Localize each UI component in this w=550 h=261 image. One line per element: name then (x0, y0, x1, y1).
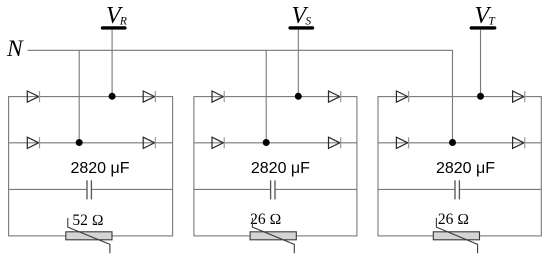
wire: N tap down to row 2 (78, 50, 80, 143)
wire: N bus from label to block-3 drop, with corner down to block-3 row 2 (28, 50, 453, 143)
svg-text:26 Ω: 26 Ω (250, 211, 281, 228)
terminal VR bar (103, 26, 125, 29)
wire: capacitor row of block 3 (left segment) (378, 188, 455, 190)
resistor R3 adjustment diagonal with hooked ends (436, 218, 477, 253)
node: VR junction dot on row 1 (109, 93, 116, 100)
wire: capacitor row of block 3 (right segment) (459, 188, 541, 190)
diode D4 (block 1, row 2 right) (143, 137, 155, 148)
wire: capacitor row of block 1 (right segment) (91, 188, 172, 190)
svg-text:2820 μF: 2820 μF (251, 160, 310, 177)
wire: capacitor row of block 2 (left segment) (194, 188, 271, 190)
diode D7 (block 2, row 2 left) (212, 137, 224, 148)
diode D3 (block 1, row 2 left) (27, 137, 39, 148)
terminal VT bar (471, 26, 494, 29)
wire: capacitor row of block 2 (right segment) (275, 188, 357, 190)
diode D9 (block 3, row 1 left) (396, 91, 408, 102)
wire: diode row 2 of block 2 (194, 142, 357, 144)
diode D6 (block 2, row 1 right) (329, 91, 341, 102)
resistor R1 body (varistor rectangle) (66, 232, 112, 240)
bridge box outline B2 (194, 97, 357, 236)
svg-text:26 Ω: 26 Ω (438, 211, 469, 228)
node: VS junction dot on row 1 (295, 93, 302, 100)
diode D1 (block 1, row 1 left) (27, 91, 39, 102)
svg-text:R: R (119, 16, 127, 28)
resistor R2 body (varistor rectangle) (250, 232, 296, 240)
resistor R2 adjustment diagonal with hooked ends (252, 218, 294, 253)
svg-text:52 Ω: 52 Ω (72, 212, 103, 229)
svg-text:N: N (6, 36, 24, 62)
svg-text:T: T (488, 16, 496, 28)
node: VT junction dot on row 1 (477, 93, 484, 100)
node: N junction dot on row 2 (263, 139, 270, 146)
diode D8 (block 2, row 2 right) (329, 137, 341, 148)
capacitor C3 plates (455, 180, 459, 199)
diode D2 (block 1, row 1 right) (143, 91, 155, 102)
wire: VR tap down to row 1 (111, 30, 113, 97)
node: N junction dot on row 2 (449, 139, 456, 146)
wire: VS tap down to row 1 (297, 30, 299, 97)
diode D5 (block 2, row 1 left) (212, 91, 224, 102)
wire: N tap down to row 2 (265, 50, 267, 143)
svg-text:2820 μF: 2820 μF (436, 160, 495, 177)
resistor R3 body (varistor rectangle) (433, 232, 479, 240)
capacitor C1 plates (87, 180, 91, 199)
diode D12 (block 3, row 2 right) (513, 137, 525, 148)
diode D11 (block 3, row 2 left) (396, 137, 408, 148)
svg-text:2820 μF: 2820 μF (70, 160, 129, 177)
wire: capacitor row of block 1 (left segment) (9, 188, 87, 190)
node: N junction dot on row 2 (76, 139, 83, 146)
wire: diode row 2 of block 1 (9, 142, 173, 144)
wire: VT tap down to row 1 (480, 30, 482, 97)
bridge box outline B3 (378, 97, 541, 236)
wire: diode row 2 of block 3 (378, 142, 541, 144)
bridge box outline B1 (top edge = diode row 1, bottom edge = resistor row) (9, 97, 173, 236)
capacitor C2 plates (271, 180, 275, 199)
diode D10 (block 3, row 1 right) (513, 91, 525, 102)
resistor R1 adjustment diagonal with hooked ends (68, 218, 110, 253)
svg-text:S: S (305, 16, 311, 28)
terminal VS bar (290, 26, 312, 29)
